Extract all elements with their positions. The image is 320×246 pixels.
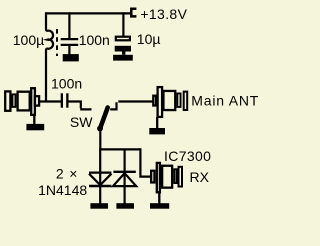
svg-text:100n: 100n (79, 32, 110, 48)
svg-text:+13.8V: +13.8V (140, 6, 187, 22)
svg-text:10µ: 10µ (137, 31, 161, 47)
svg-text:2 ×: 2 × (56, 165, 78, 181)
svg-text:100µ: 100µ (13, 32, 44, 48)
svg-text:1N4148: 1N4148 (38, 182, 87, 198)
svg-text:RX: RX (190, 169, 210, 185)
svg-text:Main ANT: Main ANT (191, 92, 259, 108)
svg-text:IC7300: IC7300 (164, 148, 211, 164)
svg-text:100n: 100n (51, 76, 82, 92)
svg-text:SW: SW (70, 114, 93, 130)
